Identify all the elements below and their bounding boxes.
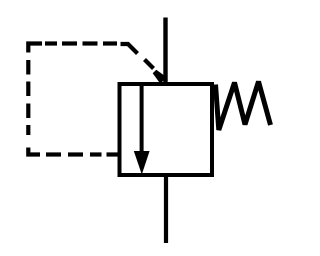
flow-path arrowhead [134,151,150,175]
pilot line left dash 1 [26,60,30,75]
pilot line bottom dash 1 [46,152,61,156]
pilot line left dash 2 [26,82,30,97]
pilot line top dash 4 [103,41,117,45]
pilot line bend dash [121,44,138,54]
pilot line bottom dash 2 [68,152,83,156]
wire outlet (bottom port) [164,173,168,243]
wire inlet (top port) [163,18,167,87]
pilot line bottom dash 3 [90,152,102,156]
pilot line top-left corner dash [28,44,42,53]
pilot line left dash 4 [26,125,30,135]
pilot arrowhead at inlet junction [153,70,167,84]
pilot line top dash 1 [45,41,57,45]
pilot line bottom dash 4 [107,152,118,156]
pilot line left dash 3 [26,104,30,119]
pilot line bottom-left corner dash [28,148,40,155]
pilot line top dash 3 [83,41,98,45]
pilot line diagonal dash [145,60,154,69]
pilot line top dash 2 [62,41,77,45]
flow-path arrow shaft [140,84,144,156]
spring [216,82,271,131]
valve body B1 [120,84,213,175]
